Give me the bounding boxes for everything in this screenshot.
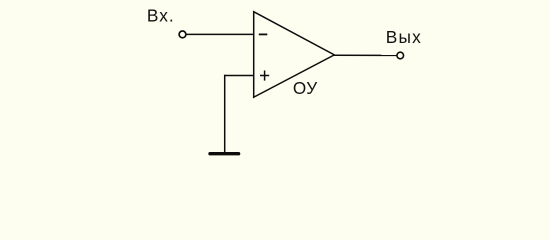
minus sign inverting input xyxy=(259,33,268,35)
svg-text:ОУ: ОУ xyxy=(293,78,318,98)
op-amp value label ОУ xyxy=(293,78,318,98)
svg-text:Вых: Вых xyxy=(386,27,422,47)
output terminal circle xyxy=(397,52,404,59)
wire output xyxy=(334,54,397,56)
node Вх. input label xyxy=(147,6,175,26)
plus sign non-inverting input xyxy=(260,71,269,81)
op-amp U1 triangle xyxy=(254,12,335,98)
ground xyxy=(210,152,239,155)
svg-text:Вх.: Вх. xyxy=(147,6,175,26)
node Вых output label xyxy=(386,27,422,47)
wire non-inverting pin horizontal xyxy=(224,75,254,77)
input terminal circle xyxy=(179,31,186,38)
wire input to inverting pin xyxy=(186,33,254,35)
wire down to ground xyxy=(224,75,226,153)
